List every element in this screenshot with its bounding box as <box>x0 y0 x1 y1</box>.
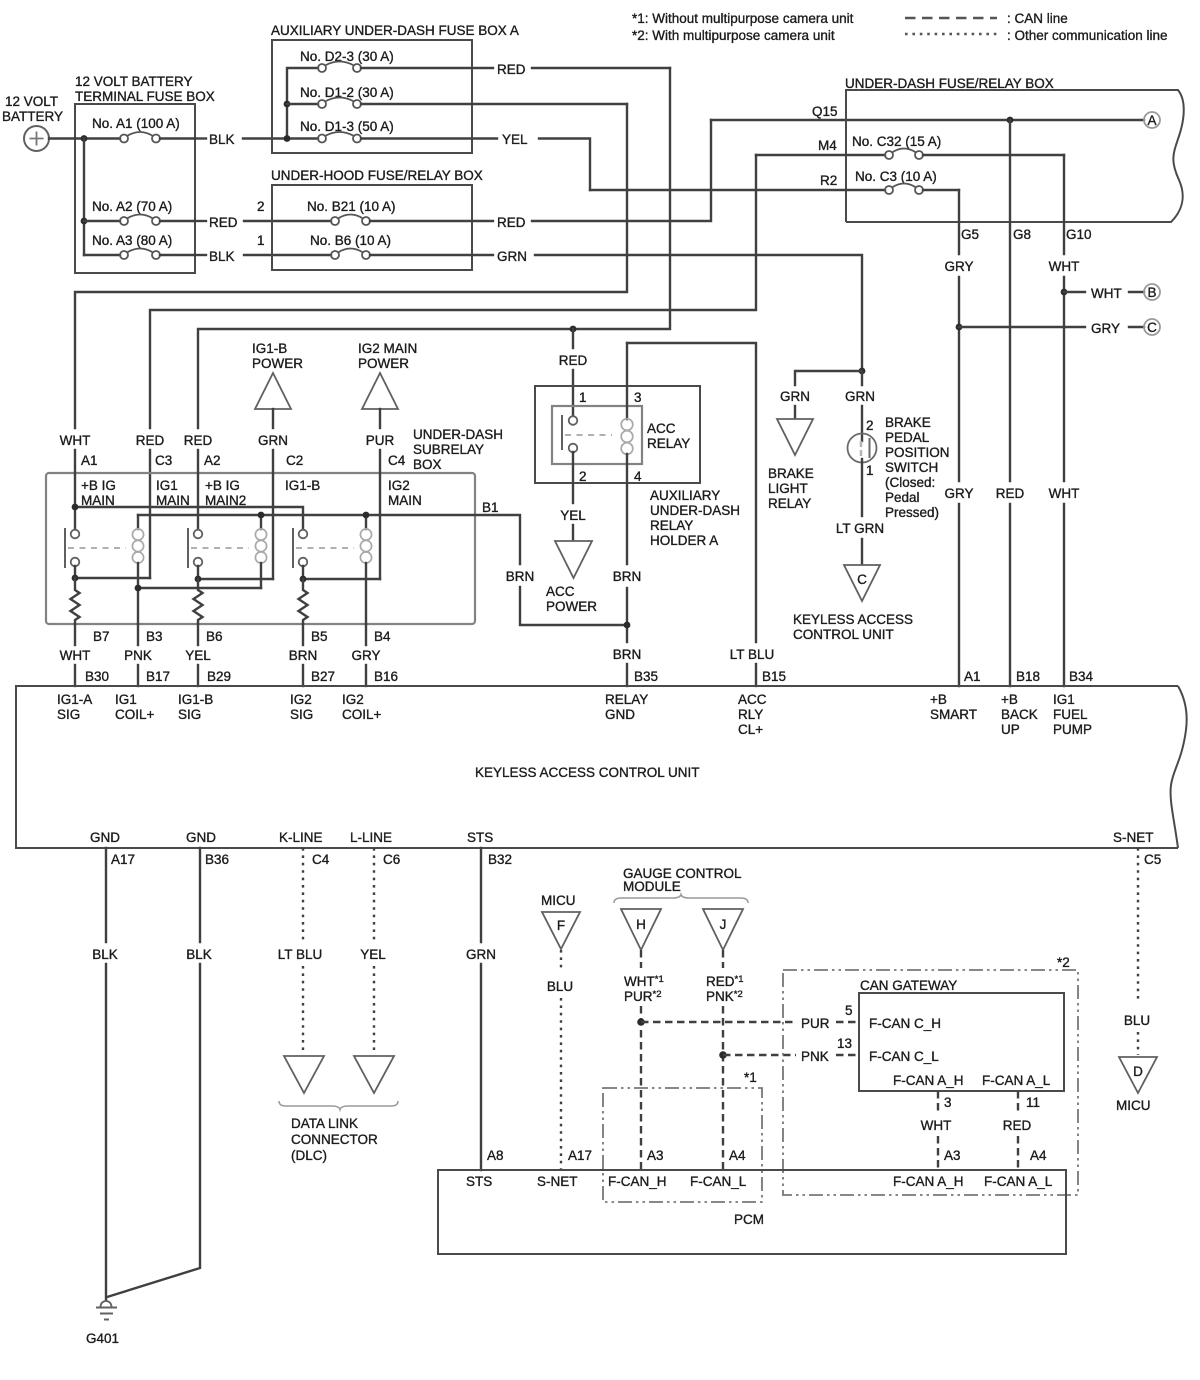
svg-text:B: B <box>1147 285 1156 300</box>
svg-text:GRN: GRN <box>258 433 288 448</box>
fuse No. C3 (10 A) <box>590 169 959 194</box>
svg-text:B34: B34 <box>1069 669 1094 684</box>
*2 dash-dot enclosure (with multipurpose camera unit) <box>783 955 1078 1195</box>
node: PNK tap on J wire <box>719 1051 727 1059</box>
node: brake feed split <box>859 368 866 375</box>
svg-text:IG1-A: IG1-A <box>57 692 92 707</box>
node: PUR tap on H wire <box>637 1018 645 1026</box>
svg-text:C: C <box>857 572 867 587</box>
svg-text:C4: C4 <box>388 453 406 468</box>
pin B6 / wire YEL to keyless B29 <box>185 624 231 686</box>
node: connector C tap <box>956 324 963 331</box>
wire BLU (dotted): MICU F to PCM A17 <box>547 950 573 1170</box>
relay K2 coil <box>255 515 266 588</box>
svg-text:B35: B35 <box>634 669 658 684</box>
resistor R1 (IG1-A SIG) <box>71 578 80 624</box>
svg-text:GRY: GRY <box>944 259 973 274</box>
wire YEL from D1-3 <box>502 132 590 190</box>
svg-text:SIG: SIG <box>57 707 80 722</box>
svg-text:IG2: IG2 <box>342 692 364 707</box>
svg-text:A1: A1 <box>81 453 98 468</box>
svg-text:GRN: GRN <box>466 947 496 962</box>
svg-text:MODULE: MODULE <box>623 879 681 894</box>
svg-text:A2: A2 <box>204 453 221 468</box>
fuse No. B21 (10 A) <box>307 199 493 225</box>
svg-text:BLU: BLU <box>1124 1013 1150 1028</box>
svg-text:UNDER-DASH FUSE/RELAY BOX: UNDER-DASH FUSE/RELAY BOX <box>845 76 1054 91</box>
fuse No. A2 (70 A) <box>84 199 195 225</box>
svg-text:A4: A4 <box>729 1148 746 1163</box>
svg-text:C4: C4 <box>312 852 330 867</box>
bottom nets: L-LINE C6 <box>350 830 400 867</box>
keyless access control unit box (torn right edge) <box>16 686 1187 848</box>
svg-text:BLK: BLK <box>209 249 235 264</box>
wire WHT: G10 down to keyless B34 <box>1049 155 1080 686</box>
svg-text:11: 11 <box>1026 1095 1040 1110</box>
svg-text:BLU: BLU <box>547 979 573 994</box>
svg-text:ACC: ACC <box>738 692 767 707</box>
wire: K1 contact out to C3 <box>75 566 150 578</box>
svg-text:MAIN: MAIN <box>156 493 190 508</box>
svg-text:J: J <box>720 917 727 932</box>
svg-text:CONNECTOR: CONNECTOR <box>291 1132 378 1147</box>
net IG1 COIL+ <box>115 692 155 722</box>
svg-text:GND: GND <box>605 707 635 722</box>
under-hood fuse/relay box <box>271 168 483 270</box>
svg-text:A8: A8 <box>487 1148 504 1163</box>
node: battery bus junction <box>81 135 88 142</box>
net +B IG MAIN2 <box>205 478 246 508</box>
svg-text:D: D <box>1133 1064 1143 1079</box>
svg-text:UNDER-DASH: UNDER-DASH <box>413 427 503 442</box>
wire WHT to connector B <box>1064 286 1144 301</box>
svg-text:12 VOLT BATTERY: 12 VOLT BATTERY <box>75 74 193 89</box>
svg-text:F-CAN_L: F-CAN_L <box>690 1174 747 1189</box>
wire battery to fuse box (BLK) <box>49 137 75 139</box>
svg-text:CAN GATEWAY: CAN GATEWAY <box>860 978 957 993</box>
svg-text:COIL+: COIL+ <box>115 707 155 722</box>
svg-text:RLY: RLY <box>738 707 763 722</box>
svg-text:RELAY: RELAY <box>605 692 648 707</box>
svg-text:KEYLESS ACCESS: KEYLESS ACCESS <box>793 612 913 627</box>
IG1-B POWER arrow <box>252 341 303 473</box>
svg-text:STS: STS <box>466 1174 492 1189</box>
svg-text:Pressed): Pressed) <box>885 505 939 520</box>
svg-text:IG1: IG1 <box>1053 692 1075 707</box>
svg-text:STS: STS <box>467 830 493 845</box>
wire BLK: B36 to ground <box>107 848 212 1297</box>
12 volt battery terminal fuse box <box>75 74 215 273</box>
resistor R3 (IG2 SIG) <box>299 579 308 624</box>
relay K1 coil <box>132 515 143 624</box>
svg-text:*2: *2 <box>1057 955 1070 970</box>
connector C <box>1144 319 1160 335</box>
fuse No. B6 (10 A) <box>310 233 493 259</box>
svg-text:GRY: GRY <box>1091 321 1120 336</box>
svg-text:YEL: YEL <box>502 132 528 147</box>
svg-text:POWER: POWER <box>358 356 409 371</box>
wire B1: coil supply bus out of box <box>138 515 520 564</box>
svg-text:DATA LINK: DATA LINK <box>291 1116 358 1131</box>
bottom nets: GND A17 <box>90 830 135 867</box>
net ACC RLY CL+ <box>738 692 767 737</box>
svg-text:B29: B29 <box>207 669 231 684</box>
svg-text:F-CAN A_L: F-CAN A_L <box>982 1073 1051 1088</box>
svg-text:POWER: POWER <box>546 599 597 614</box>
svg-text:IG2: IG2 <box>388 478 410 493</box>
svg-text:SWITCH: SWITCH <box>885 460 938 475</box>
wire WHT*1/PUR*2 (CAN, dashed): H to PCM A3 <box>624 950 664 1170</box>
svg-text:F-CAN A_H: F-CAN A_H <box>893 1073 964 1088</box>
gauge control module arrow J <box>703 909 743 950</box>
svg-text:YEL: YEL <box>185 648 211 663</box>
wire: C4 down to relay 3 contact output <box>379 473 381 579</box>
pin B7 / wire WHT to keyless B30 <box>60 624 110 686</box>
wire GRY to connector C <box>959 321 1144 336</box>
svg-text:F-CAN_H: F-CAN_H <box>608 1174 667 1189</box>
svg-text:B32: B32 <box>488 852 512 867</box>
svg-text:POSITION: POSITION <box>885 445 950 460</box>
svg-text:*2: With multipurpose camera u: *2: With multipurpose camera unit <box>632 28 835 43</box>
switch description <box>885 415 950 520</box>
svg-text:GRN: GRN <box>845 389 875 404</box>
svg-text:YEL: YEL <box>560 508 586 523</box>
svg-text:No. B6 (10 A): No. B6 (10 A) <box>310 233 391 248</box>
node: G8 tap on Q15 line <box>1007 117 1014 124</box>
brake light relay arrow <box>768 419 814 511</box>
under-dash subrelay box <box>46 427 503 624</box>
net IG1-B SIG <box>178 692 213 722</box>
svg-text:B27: B27 <box>311 669 335 684</box>
wire LT BLU: keyless B15 up to ACC relay coil <box>627 343 786 686</box>
svg-text:C: C <box>1147 320 1157 335</box>
svg-text:ACC: ACC <box>546 584 575 599</box>
pin B18 / net +B BACK UP <box>1001 669 1040 737</box>
svg-text:GND: GND <box>186 830 216 845</box>
svg-text:A17: A17 <box>568 1148 592 1163</box>
net IG2 MAIN <box>388 478 422 508</box>
fuse No. D1-3 (50 A) <box>300 119 497 143</box>
svg-text:No. A2 (70 A): No. A2 (70 A) <box>92 199 172 214</box>
svg-text:No. C32 (15 A): No. C32 (15 A) <box>852 134 941 149</box>
wire: battery bus down to A2/A3 <box>83 139 85 256</box>
connector A <box>1144 112 1160 128</box>
svg-text:LIGHT: LIGHT <box>768 481 808 496</box>
svg-text:PUR: PUR <box>801 1016 830 1031</box>
svg-text:G5: G5 <box>961 227 979 242</box>
svg-text:RED: RED <box>497 215 526 230</box>
wire: C2 down to relay 2 contact output <box>272 473 274 579</box>
wire PUR (CAN, dashed) to gateway pin 5 <box>641 1003 859 1031</box>
svg-text:SIG: SIG <box>178 707 201 722</box>
wire: A1 feed bus to relay contacts 1 and 3 <box>75 473 303 529</box>
svg-text:PUR: PUR <box>366 433 395 448</box>
pin 11 / wire RED (CAN, dashed) to PCM A4 <box>1003 1091 1040 1170</box>
svg-text:AUXILIARY UNDER-DASH FUSE BOX: AUXILIARY UNDER-DASH FUSE BOX A <box>271 23 519 38</box>
wire BLK A3 row to under-hood box, pin 1 <box>195 233 331 264</box>
svg-text:MICU: MICU <box>1116 1098 1151 1113</box>
svg-text:PUMP: PUMP <box>1053 722 1092 737</box>
svg-text:5: 5 <box>845 1003 853 1018</box>
svg-text:Q15: Q15 <box>812 104 838 119</box>
ground G401 <box>86 1301 119 1346</box>
wire Q15 into under-dash fuse/relay box to connector A <box>711 119 1144 121</box>
fuse No. A1 (100 A) <box>75 116 195 143</box>
data link connector arrow 1 <box>284 1056 324 1093</box>
svg-text:: CAN line: : CAN line <box>1007 11 1068 26</box>
wire RED A2 row to under-hood box, pin 2 <box>195 199 331 230</box>
wire RED from D2-3 to node at x670 <box>497 62 670 77</box>
wire PNK (CAN, dashed) to gateway pin 13 <box>723 1036 859 1064</box>
svg-text:BRN: BRN <box>289 648 318 663</box>
ACC relay contact <box>562 415 612 452</box>
svg-text:F-CAN C_H: F-CAN C_H <box>869 1016 941 1031</box>
svg-text:SUBRELAY: SUBRELAY <box>413 442 484 457</box>
net RELAY GND <box>605 692 648 722</box>
svg-text:MAIN: MAIN <box>388 493 422 508</box>
svg-text:BLK: BLK <box>209 132 235 147</box>
relay K3 coil <box>360 515 371 624</box>
svg-text:GRY: GRY <box>944 486 973 501</box>
under-dash fuse/relay box (torn right edge) <box>845 76 1184 222</box>
svg-text:C2: C2 <box>286 453 303 468</box>
svg-text:ACC: ACC <box>647 421 676 436</box>
svg-text:C3: C3 <box>155 453 172 468</box>
wire: aux box internal feed bus <box>287 68 318 139</box>
MICU arrow D <box>1116 1057 1157 1113</box>
legend: other communication line sample <box>905 28 1168 43</box>
svg-text:F: F <box>557 918 565 933</box>
bottom nets: S-NET C5 <box>1113 830 1161 867</box>
bottom nets: STS B32 <box>467 830 512 867</box>
svg-text:WHT: WHT <box>1049 486 1080 501</box>
svg-text:CL+: CL+ <box>738 722 763 737</box>
data link connector arrow 2 <box>354 1056 394 1093</box>
svg-text:R2: R2 <box>820 173 837 188</box>
svg-text:IG1-B: IG1-B <box>178 692 213 707</box>
svg-text:A17: A17 <box>111 852 135 867</box>
svg-text:RED: RED <box>1003 1118 1032 1133</box>
svg-text:G8: G8 <box>1013 227 1031 242</box>
keyless access control unit arrow C <box>793 565 913 642</box>
svg-text:BRN: BRN <box>613 569 642 584</box>
wire: M4 (No. C32) feed down and across to subrelay C3 (RED) <box>150 155 756 428</box>
svg-text:RED: RED <box>996 486 1025 501</box>
relay K1 contact <box>65 528 126 568</box>
svg-text:PCM: PCM <box>734 1212 764 1227</box>
svg-text:RELAY: RELAY <box>647 436 690 451</box>
svg-text:WHT: WHT <box>60 648 91 663</box>
svg-text:RELAY: RELAY <box>650 518 693 533</box>
wire RED*1/PNK*2 (CAN, dashed): J to PCM A4 <box>706 950 744 1170</box>
svg-text:+B: +B <box>930 692 947 707</box>
svg-text:A3: A3 <box>944 1148 961 1163</box>
svg-text:KEYLESS ACCESS CONTROL UNIT: KEYLESS ACCESS CONTROL UNIT <box>475 765 700 780</box>
auxiliary under-dash relay holder A box <box>535 386 700 483</box>
wire GRN: B32 (STS) down to PCM A8 <box>466 848 496 1170</box>
net IG2 COIL+ <box>342 692 382 722</box>
svg-text:GRN: GRN <box>780 389 810 404</box>
svg-text:PEDAL: PEDAL <box>885 430 930 445</box>
svg-text:F-CAN C_L: F-CAN C_L <box>869 1049 939 1064</box>
svg-text:BRAKE: BRAKE <box>768 466 814 481</box>
resistor R2 (IG1-B SIG) <box>194 579 203 624</box>
svg-text:No. C3 (10 A): No. C3 (10 A) <box>855 169 937 184</box>
connector B <box>1144 284 1160 300</box>
svg-text:PNK: PNK <box>124 648 152 663</box>
svg-text:UNDER-HOOD FUSE/RELAY BOX: UNDER-HOOD FUSE/RELAY BOX <box>271 168 483 183</box>
svg-text:FUEL: FUEL <box>1053 707 1088 722</box>
svg-text:WHT: WHT <box>1049 259 1080 274</box>
svg-text:RED: RED <box>559 353 588 368</box>
svg-text:IG1: IG1 <box>156 478 178 493</box>
svg-text:RED: RED <box>184 433 213 448</box>
svg-text:A1: A1 <box>964 669 981 684</box>
svg-text:UNDER-DASH: UNDER-DASH <box>650 503 740 518</box>
ACC POWER arrow <box>546 541 597 614</box>
svg-text:RELAY: RELAY <box>768 496 811 511</box>
pin A17 / net S-NET <box>537 1148 592 1189</box>
svg-text:B1: B1 <box>482 500 499 515</box>
svg-text:No. D1-3 (50 A): No. D1-3 (50 A) <box>300 119 394 134</box>
svg-text:K-LINE: K-LINE <box>279 830 323 845</box>
pin A4 / net F-CAN A_L <box>984 1148 1053 1189</box>
svg-text:WHT: WHT <box>921 1118 952 1133</box>
svg-text:S-NET: S-NET <box>537 1174 578 1189</box>
svg-text:12 VOLT: 12 VOLT <box>5 94 58 109</box>
svg-text:G401: G401 <box>86 1331 119 1346</box>
wire S-NET (dotted): keyless C5 to MICU D <box>1124 848 1150 1055</box>
svg-text:3: 3 <box>634 390 642 405</box>
wire BLK battery row to aux fuse box <box>195 132 318 147</box>
svg-text:UP: UP <box>1001 722 1020 737</box>
svg-text:B36: B36 <box>205 852 229 867</box>
svg-text:SMART: SMART <box>930 707 977 722</box>
svg-text:B30: B30 <box>85 669 109 684</box>
svg-text:+B: +B <box>1001 692 1018 707</box>
svg-text:A3: A3 <box>647 1148 664 1163</box>
svg-text:(Closed:: (Closed: <box>885 475 935 490</box>
auxiliary under-dash fuse box A <box>271 23 519 153</box>
pin B4 / wire GRY to keyless B16 <box>351 624 398 686</box>
pin B34 / net IG1 FUEL PUMP <box>1053 669 1094 737</box>
svg-text:B15: B15 <box>762 669 786 684</box>
svg-text:AUXILIARY: AUXILIARY <box>650 488 720 503</box>
svg-text:RED: RED <box>497 62 526 77</box>
svg-text:GND: GND <box>90 830 120 845</box>
wire GRN to brake pedal position switch <box>845 371 875 441</box>
pin A8 / net STS <box>466 1148 504 1189</box>
gauge control module arrow H <box>621 909 661 950</box>
svg-text:B16: B16 <box>374 669 398 684</box>
svg-text:HOLDER A: HOLDER A <box>650 533 718 548</box>
svg-text:H: H <box>636 917 646 932</box>
PCM box <box>438 1170 1066 1254</box>
svg-text:3: 3 <box>944 1095 952 1110</box>
wire GRN from B6 to brake relays <box>497 249 862 371</box>
pin A1 / net +B SMART <box>930 669 981 722</box>
IG2 MAIN POWER arrow <box>358 341 417 473</box>
svg-text:CONTROL UNIT: CONTROL UNIT <box>793 627 894 642</box>
svg-text:IG1: IG1 <box>115 692 137 707</box>
CAN gateway box <box>859 978 1064 1091</box>
brake pedal position switch SW1 <box>795 418 877 478</box>
svg-text:L-LINE: L-LINE <box>350 830 392 845</box>
svg-text:*1: *1 <box>744 1070 757 1085</box>
*1 dash-dot enclosure (without multipurpose camera unit) <box>603 1070 762 1202</box>
svg-text:GRY: GRY <box>351 648 380 663</box>
svg-text:MAIN: MAIN <box>81 493 115 508</box>
pin A4 / net F-CAN_L <box>690 1148 747 1189</box>
wire LT GRN: switch to keyless access control unit C <box>836 459 884 565</box>
svg-text:B3: B3 <box>146 629 163 644</box>
svg-text:B6: B6 <box>206 629 223 644</box>
svg-text:G10: G10 <box>1066 227 1092 242</box>
svg-text:GRN: GRN <box>497 249 527 264</box>
ACC relay U2 box <box>552 406 690 464</box>
svg-text:S-NET: S-NET <box>1113 830 1154 845</box>
wire GRY: G5 down to keyless A1 <box>944 190 973 686</box>
fuse No. A3 (80 A) <box>84 233 195 259</box>
wire YEL (L-LINE, dotted) to DLC <box>360 848 386 1054</box>
legend: CAN line sample <box>905 11 1068 26</box>
svg-text:+B IG: +B IG <box>81 478 116 493</box>
svg-text:2: 2 <box>257 199 265 214</box>
legend: notes <box>632 11 854 43</box>
wire RED: tap down to ACC relay pin 1 <box>572 329 574 348</box>
svg-text:Pedal: Pedal <box>885 490 920 505</box>
wire LT BLU (K-LINE, dotted) to DLC <box>278 848 323 1054</box>
net IG1-A SIG <box>57 692 92 722</box>
net IG1 MAIN <box>156 478 190 508</box>
bottom nets: GND B36 <box>186 830 229 867</box>
svg-text:BLK: BLK <box>186 947 212 962</box>
svg-text:C6: C6 <box>383 852 400 867</box>
battery BAT1 12 volt battery <box>2 94 63 151</box>
wire: D2-3 feed down and across to subrelay A2 (RED) <box>198 68 670 428</box>
svg-text:BLK: BLK <box>92 947 118 962</box>
wire: K1/K2 coil low-side tie <box>138 587 261 589</box>
wire BRN: ACC relay pin 4 to keyless B35 <box>613 569 658 686</box>
wire: D1-2 feed down and across to subrelay A1 (WHT) <box>75 104 627 428</box>
DLC brace and label <box>279 1101 398 1163</box>
pin B3 / wire PNK to keyless B17 <box>124 624 170 686</box>
svg-text:BRAKE: BRAKE <box>885 415 931 430</box>
svg-text:B18: B18 <box>1016 669 1040 684</box>
svg-text:F-CAN A_L: F-CAN A_L <box>984 1174 1053 1189</box>
svg-text:SIG: SIG <box>290 707 313 722</box>
svg-text:IG1-B: IG1-B <box>285 478 320 493</box>
fuse No. D2-3 (30 A) <box>300 49 493 72</box>
svg-text:No. A3 (80 A): No. A3 (80 A) <box>92 233 172 248</box>
bottom nets: K-LINE C4 <box>279 830 330 867</box>
svg-text:A: A <box>1147 113 1156 128</box>
svg-text:PNK: PNK <box>801 1049 829 1064</box>
svg-text:No. B21 (10 A): No. B21 (10 A) <box>307 199 396 214</box>
svg-text:B4: B4 <box>374 629 391 644</box>
svg-text:YEL: YEL <box>360 947 386 962</box>
svg-text:LT GRN: LT GRN <box>836 521 884 536</box>
svg-text:POWER: POWER <box>252 356 303 371</box>
gauge control module label and brace <box>614 866 748 903</box>
svg-text:TERMINAL FUSE BOX: TERMINAL FUSE BOX <box>75 89 215 104</box>
wire BLK: A17 to ground <box>92 848 118 1300</box>
svg-text:B17: B17 <box>146 669 170 684</box>
node: connector B tap <box>1061 289 1068 296</box>
svg-text:B5: B5 <box>311 629 328 644</box>
svg-text:A4: A4 <box>1030 1148 1047 1163</box>
svg-text:(DLC): (DLC) <box>291 1148 327 1163</box>
